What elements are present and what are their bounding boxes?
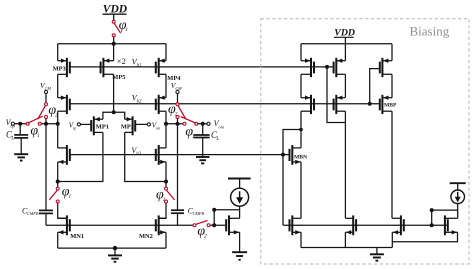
wire MP3 source [57,44,59,61]
label Vb3 [131,146,141,157]
transistor bias PMOS B2 [334,95,346,114]
wire diode connection up [214,210,239,226]
node MBN diode junction [299,128,303,132]
wire N4 source path [392,232,457,242]
wire N4 mirror node [432,210,458,225]
wire A1 drain to A2 [300,74,302,97]
switch phi1 (right bottom) [165,182,175,204]
svg-text:2: 2 [204,233,207,239]
label MP3 [53,65,66,72]
wire bias A source [300,44,302,61]
label x2 multiplier [117,56,126,66]
label MP4 [167,75,181,82]
transistor MP2 [125,116,136,135]
transistor diode NMOS [226,215,239,235]
node left mid junction [56,180,60,184]
wire MP5 drain to tail [113,74,115,112]
label CL left [6,130,14,142]
transistor bias PMOS A2 [301,95,314,114]
wire diode source to ground [239,232,241,252]
wire MP5 source [113,44,115,61]
svg-text:MP5: MP5 [112,74,125,81]
wire Vop to switch [15,123,26,125]
transistor bias N4 [445,215,458,235]
svg-text:MN1: MN1 [70,233,84,240]
wire right NMOS cascode drain [165,124,167,148]
label phi1 (right output) [185,124,195,139]
transistor bias N3 [392,215,404,235]
terminal VCM right [176,90,179,93]
wire right CMFB to gate rail [177,213,179,225]
wire MBN source to N1 drain [300,162,302,218]
wire MBP drain to N3 drain [391,111,393,218]
wire MN1 source to ground rail [57,232,59,248]
wire A2 drain to MBN [300,111,302,148]
transistor MP5 [101,58,114,77]
wire switch to diode gate [210,224,226,226]
wire right cascode drain to output node [165,111,167,124]
svg-text:1: 1 [37,133,40,139]
wire switch to top rail [113,37,115,44]
biasing dashed box [261,19,469,264]
label Vim [152,121,161,131]
wire MP1 drain down [58,132,103,181]
wire MP2 drain down [125,132,166,181]
wire VDD stem to switch [113,14,115,20]
wire Vb1 diode loop [327,67,345,123]
wire MP3 drain to cascode [57,74,59,97]
transistor right PMOS cascode [156,95,166,114]
label VCM right [171,81,182,91]
terminal Vip [77,123,91,126]
label MN2 [139,233,153,240]
switch phi2 (left VCM) [38,103,48,120]
node diode gate [212,223,216,227]
label VCM left [40,81,51,91]
wire Vb3 gate rail [70,154,290,156]
node left output A [44,122,48,126]
wire top supply rail [58,43,166,45]
label Vip [69,121,77,131]
transistor MN2 [156,215,166,235]
node mirror A [430,208,434,212]
wire MN gate rail [46,224,193,226]
label MP1 [96,123,109,130]
wire bias NMOS gate rail [283,224,448,226]
label phi2 (left VCM) [48,103,58,118]
transistor MN1 [58,215,70,235]
svg-text:MN2: MN2 [139,233,153,240]
transistor MBP [380,95,392,114]
label CCMFB left [22,206,39,216]
wire CL right to ground [202,138,204,158]
wire left cascode drain to output node [57,111,59,124]
transistor MP3 [58,58,70,77]
svg-text:CMFB: CMFB [193,211,205,216]
node ground junction [113,246,117,250]
switch phi1 (left output) [26,116,42,125]
switch phi2 (CMFB to bias) [193,220,210,226]
wire bias ground rail [301,247,392,249]
label phi2 (CMFB) [197,224,207,239]
transistor left PMOS cascode [58,95,70,114]
wire right CMFB drop [177,124,179,211]
wire right cascode source [165,162,167,182]
wire switch to MN2 drain [159,203,166,218]
transistor bias N1 [290,215,302,235]
svg-text:L: L [215,137,219,142]
svg-text:1: 1 [163,197,166,203]
wire P1 gate to Vb2 [370,69,380,104]
terminal Vom [207,122,210,125]
label CCMFB right [188,206,205,216]
svg-text:L: L [10,137,14,142]
label Vb1 [132,58,142,69]
wire switch to left node [42,123,58,125]
svg-text:b2: b2 [137,99,142,104]
wire right node [166,123,183,125]
svg-text:CMFB: CMFB [27,211,39,216]
svg-text:MBN: MBN [294,155,307,161]
label phi1 (left bottom) [62,184,72,199]
wire B2 drain to N2 drain [344,111,346,218]
label phi1 (right bottom) [156,188,166,203]
VDD supply label [103,3,128,15]
transistor left NMOS cascode [58,145,70,165]
wire bias top rail [301,43,392,45]
svg-text:MP2: MP2 [121,123,134,130]
current source main [231,188,249,206]
wire CL left drop [19,124,21,135]
wire VDD bias stem [344,37,346,44]
capacitor CCMFB left [39,210,53,213]
label MBN [294,155,307,161]
svg-text:MP1: MP1 [96,123,109,130]
transistor bias N2 [345,215,356,235]
terminal Vop [11,122,14,125]
svg-text:2: 2 [175,112,178,118]
node diode drain [212,208,216,212]
wire CL left to ground [20,138,22,154]
wire VCM left to switch [45,94,47,103]
transistor bias PMOS B1 [334,58,346,77]
wire VCM right to switch [177,94,179,103]
wire left NMOS cascode drain [57,124,59,148]
svg-text:1: 1 [125,27,128,33]
capacitor CCMFB right [171,210,184,213]
svg-text:MP3: MP3 [53,65,66,72]
svg-text:ip: ip [73,125,76,130]
wire bottom ground rail [58,247,166,249]
wire switch to node [177,119,179,124]
wire N1 gate from Vb3 [282,155,284,226]
wire diode drain vertical [239,206,241,218]
label phi1 (VDD switch) [119,18,129,33]
wire N1 source down [300,232,302,247]
wire left CMFB drop [45,124,47,211]
node tail junction [112,110,116,114]
VDD bias label [334,28,355,39]
transistor right NMOS cascode [156,145,166,165]
wire MP4 source [165,44,167,61]
switch phi1 (VDD) [112,20,120,36]
svg-text:VDD: VDD [103,3,128,15]
transistor bias PMOS P1 [380,58,392,77]
ground CL left [14,154,28,160]
wire B1 drain to B2 [344,74,346,97]
node top rail junction [112,42,116,46]
node CL tap right [201,122,205,126]
capacitor CL left [14,135,28,138]
transistor MP4 [156,58,166,77]
wire switch to Vom [198,123,207,125]
terminal VCM left [44,90,47,93]
transistor MP1 [91,116,103,135]
transistor MBN [290,145,302,165]
node Vb2 junction [368,102,372,106]
wire switch to MN1 drain [58,203,67,218]
wire left CMFB to gate rail [45,213,47,225]
switch phi2 (right VCM) [176,103,186,120]
label MP2 [121,123,134,130]
wire P1 drain to MBP [391,74,393,97]
node right mid junction [164,180,168,184]
supply bar bias current source [450,183,466,190]
label phi2 (right VCM) [168,102,178,117]
wire MBN diode loop [283,130,301,155]
wire CL right drop [202,124,204,135]
node Vb1 junction [325,65,329,69]
svg-text:×2: ×2 [117,56,126,66]
label MP5 [112,74,125,81]
wire bias B source [344,44,346,61]
wire left cascode source [57,162,59,182]
wire N3 drain stub [391,217,393,219]
wire N4 drain vertical [457,204,459,219]
switch phi1 (right output) [181,117,198,126]
svg-text:im: im [156,125,160,130]
node CL tap left [18,122,22,126]
label CL right [211,130,219,142]
terminal Vim [135,123,150,126]
node Vb3 bias junction [281,153,285,157]
node right output B [164,122,168,126]
svg-text:1: 1 [68,194,71,200]
svg-text:CM: CM [175,86,182,91]
transistor bias PMOS A1 [301,58,314,77]
wire switch to node [45,119,47,124]
wire Vb2 gate rail [70,103,380,105]
node right output A [176,122,180,126]
wire MN2 source to ground rail [165,232,167,248]
wire tail node [103,112,125,119]
svg-text:MBP: MBP [384,102,397,108]
label MN1 [70,233,84,240]
label Vom [214,119,225,129]
label Vop [6,118,16,128]
wire MP4 drain to cascode [165,74,167,97]
label Biasing [410,24,450,39]
ground CL right [196,157,210,163]
wire N3 source down [391,232,393,247]
wire MBP column source [391,44,393,61]
svg-text:2: 2 [55,113,58,119]
label MBP [384,102,397,108]
switch phi1 (left bottom) [49,182,59,204]
ground main [108,248,122,262]
svg-text:om: om [218,124,224,129]
ground diode [232,252,247,260]
wire Vb1 gate rail [70,66,334,68]
svg-text:b1: b1 [137,64,142,69]
label Vb2 [132,93,142,104]
ground bias [370,248,384,261]
node left output B [56,122,60,126]
svg-text:b3: b3 [136,152,141,157]
node mirror B [430,223,434,227]
wire N2 source down [344,232,346,247]
supply bar main current source [228,179,251,189]
current source bias [451,190,465,204]
capacitor CL right [194,135,210,138]
label phi1 (left output) [30,124,40,139]
svg-text:Biasing: Biasing [410,24,450,39]
